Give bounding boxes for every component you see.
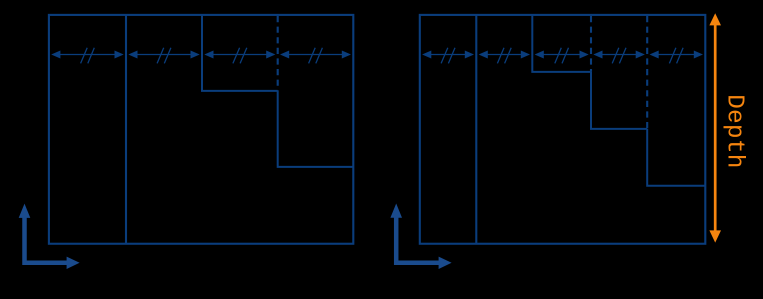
svg-text:Depth: Depth xyxy=(720,94,747,169)
